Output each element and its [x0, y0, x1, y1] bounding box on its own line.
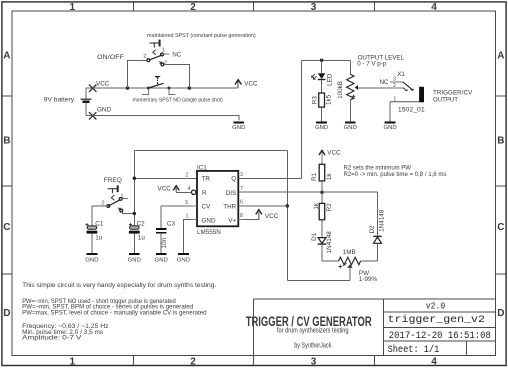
svg-text:1N4148: 1N4148	[326, 231, 333, 254]
ground symbol RV1	[344, 122, 357, 131]
svg-text:4: 4	[431, 356, 437, 367]
IC1 pin names	[202, 176, 237, 225]
svg-text:FREQ: FREQ	[104, 177, 122, 184]
svg-text:VCC: VCC	[158, 186, 172, 193]
svg-text:2: 2	[190, 2, 196, 13]
svg-text:4: 4	[188, 186, 191, 192]
svg-text:VCC: VCC	[327, 149, 341, 156]
wire Q output	[238, 177, 301, 179]
svg-text:PW=max, SPST, level of choice: PW=max, SPST, level of choice - manually…	[22, 311, 206, 317]
wire SW3 pin2 to C1	[92, 206, 107, 225]
wire SW1 pin2 to VCC rail	[128, 60, 148, 88]
svg-text:1: 1	[186, 213, 189, 219]
junction THR node	[286, 204, 290, 208]
svg-text:A: A	[497, 50, 504, 61]
svg-text:5: 5	[185, 200, 188, 206]
wire DIS to D2	[377, 192, 379, 236]
wire TR-THR tie top	[134, 149, 287, 151]
wire Q output to LED/pot	[302, 59, 351, 61]
SW1 second throw contact	[159, 60, 167, 66]
power symbol VCC (R pin)	[158, 186, 180, 193]
svg-text:This simple circuit is very ha: This simple circuit is very handy especi…	[22, 283, 216, 289]
svg-text:1u: 1u	[95, 235, 103, 242]
diode D1 1N4148	[311, 231, 333, 261]
svg-text:IC1: IC1	[197, 164, 207, 171]
svg-text:Amplitude: 0-7 V: Amplitude: 0-7 V	[22, 336, 81, 342]
svg-text:100kB: 100kB	[337, 81, 344, 99]
svg-text:GND: GND	[177, 257, 190, 263]
svg-text:3: 3	[240, 172, 243, 178]
svg-text:1: 1	[70, 356, 76, 367]
power symbol VCC (rail end)	[235, 80, 258, 88]
wire GND rail	[93, 116, 239, 121]
ground symbol C1	[85, 254, 98, 263]
wire TR-THR tie vertical	[286, 150, 288, 280]
IC1 pin 4 R inversion bubble	[192, 190, 196, 194]
svg-text:D1: D1	[311, 232, 318, 241]
junction DIS / R1-R2	[320, 190, 324, 194]
svg-text:1k: 1k	[313, 202, 320, 210]
svg-text:C: C	[3, 222, 10, 233]
svg-text:1u: 1u	[138, 234, 146, 241]
svg-text:Sheet: 1/1: Sheet: 1/1	[388, 344, 440, 356]
wire X1 pin1 to ground	[389, 102, 391, 122]
svg-text:R2=0 -> min. pulse time = 0,8: R2=0 -> min. pulse time = 0,8 / 1,6 ms	[344, 171, 447, 178]
svg-text:1MB: 1MB	[343, 249, 356, 256]
IC1 pin 5 CV stub	[191, 205, 197, 207]
label TRIGGER/CV OUTPUT	[433, 90, 473, 104]
wire GND pin down	[183, 220, 190, 254]
svg-text:TR: TR	[202, 176, 211, 183]
svg-text:CV: CV	[202, 203, 212, 210]
connector X1 jack 1502_01	[380, 71, 426, 113]
svg-text:1: 1	[70, 2, 76, 13]
capacitor C2 1u	[129, 220, 146, 254]
wire V+ pin to VCC	[245, 219, 259, 221]
svg-text:8: 8	[240, 213, 243, 219]
svg-text:GND: GND	[232, 125, 245, 131]
ground symbol R3	[315, 122, 328, 131]
junction SW3/C2 node	[133, 212, 137, 216]
svg-text:momentary SPST NO (single puls: momentary SPST NO (single pulse shot)	[133, 97, 223, 103]
svg-text:2: 2	[164, 60, 167, 66]
svg-text:2017-12-20 16:51:08: 2017-12-20 16:51:08	[389, 331, 491, 342]
svg-text:6: 6	[240, 200, 243, 206]
battery BT1 9V	[81, 88, 93, 116]
IC1 pin 8 V+ stub	[238, 219, 245, 221]
svg-text:GND: GND	[128, 257, 141, 263]
wire SW1 throw to VCC rail	[164, 65, 190, 88]
svg-text:GND: GND	[315, 125, 328, 131]
svg-text:VCC: VCC	[265, 213, 279, 220]
switch SW1 maintained SPST ON/OFF	[97, 33, 256, 62]
svg-text:trigger_gen_v2: trigger_gen_v2	[388, 314, 485, 326]
wire VCC rail	[93, 87, 239, 89]
switch SW2 momentary SPST NO	[133, 77, 223, 104]
resistor R2 1k	[313, 202, 333, 237]
svg-text:A: A	[3, 50, 10, 61]
junction TR node	[133, 177, 137, 181]
svg-text:3: 3	[311, 2, 317, 13]
power symbol VCC (V+ pin)	[256, 210, 279, 220]
wire timing node vertical (TR/C2)	[133, 150, 135, 226]
svg-text:2: 2	[143, 54, 146, 60]
diode D2 1N4148	[369, 209, 385, 261]
resistor R1 1k	[311, 149, 341, 203]
wire CV pin to C3	[161, 205, 191, 207]
ground symbol (right of rails)	[232, 122, 245, 131]
svg-text:B: B	[497, 136, 504, 147]
wire R pin to VCC	[176, 191, 191, 193]
svg-text:NC: NC	[380, 79, 390, 86]
svg-text:1N4148: 1N4148	[378, 209, 385, 232]
LED D3	[312, 60, 334, 93]
svg-text:Q: Q	[231, 176, 236, 183]
potentiometer RV2 1MB PW	[322, 249, 378, 283]
svg-text:C3: C3	[167, 220, 176, 227]
ground symbol X1	[384, 122, 397, 131]
capacitor C1 1u	[86, 220, 104, 254]
svg-text:4: 4	[431, 2, 437, 13]
svg-text:GND: GND	[97, 107, 111, 114]
svg-text:D: D	[3, 308, 10, 319]
ground symbol IC1	[177, 254, 190, 263]
wire DIS pin	[238, 191, 377, 193]
ground symbol C3	[155, 254, 168, 263]
svg-text:10n: 10n	[161, 237, 168, 248]
svg-text:ON/OFF: ON/OFF	[97, 54, 124, 61]
svg-text:B: B	[3, 136, 10, 147]
svg-text:LM555N: LM555N	[197, 229, 221, 236]
SW3 second throw contact	[118, 208, 122, 212]
svg-text:GND: GND	[85, 257, 98, 263]
svg-text:1502_01: 1502_01	[398, 106, 425, 113]
svg-text:X1: X1	[397, 71, 405, 78]
svg-text:R2: R2	[326, 203, 333, 212]
no-connect flag on GND node	[89, 112, 96, 119]
op-amp/timer IC1 LM555N body	[197, 164, 238, 236]
capacitor C3 10n	[156, 206, 176, 254]
svg-text:VCC: VCC	[96, 81, 110, 88]
svg-text:v2.0: v2.0	[426, 302, 446, 312]
wire TR to IC pin 2	[134, 177, 197, 179]
svg-text:2: 2	[190, 356, 196, 367]
svg-text:1-99%: 1-99%	[359, 276, 378, 283]
svg-text:2: 2	[185, 173, 188, 179]
junction VCC rail / SW1 throw	[188, 86, 192, 90]
svg-text:7: 7	[240, 186, 243, 192]
svg-text:THR: THR	[223, 203, 236, 210]
svg-text:C: C	[497, 222, 504, 233]
svg-text:DIS: DIS	[226, 190, 237, 197]
junction LED branch	[320, 59, 324, 63]
IC1 pin 1 GND stub	[191, 219, 197, 221]
svg-text:R3: R3	[311, 96, 318, 105]
svg-text:GND: GND	[384, 125, 397, 131]
wire Q output vertical	[301, 60, 303, 178]
svg-text:1k5: 1k5	[326, 94, 333, 105]
svg-text:OUTPUT: OUTPUT	[433, 97, 458, 104]
svg-text:LED: LED	[327, 73, 334, 86]
svg-text:V+: V+	[228, 217, 236, 224]
switch SW3 FREQ select	[102, 177, 128, 208]
svg-text:D: D	[497, 308, 504, 319]
svg-text:0 - 7 V p-p: 0 - 7 V p-p	[357, 60, 386, 67]
potentiometer RV1 100kB output level	[337, 60, 358, 122]
svg-text:by SyntherJack: by SyntherJack	[294, 341, 331, 350]
svg-text:GND: GND	[155, 257, 168, 263]
svg-text:R1: R1	[311, 172, 318, 181]
svg-text:1k: 1k	[326, 173, 333, 181]
svg-text:3: 3	[311, 356, 317, 367]
svg-text:maintained SPST (constant puls: maintained SPST (constant pulse generati…	[147, 33, 256, 39]
junction VCC rail / SW1 common	[126, 86, 130, 90]
wire THR pin	[238, 205, 287, 207]
svg-text:for drum synthesizers testing: for drum synthesizers testing	[277, 325, 349, 334]
svg-text:GND: GND	[202, 217, 216, 224]
wire RV1 wiper to X1 pin2	[358, 87, 390, 89]
wire THR node to pot wiper	[287, 279, 350, 281]
svg-text:R: R	[202, 190, 207, 197]
svg-text:D2: D2	[369, 225, 376, 234]
ground symbol C2	[128, 254, 141, 263]
svg-text:VCC: VCC	[244, 81, 258, 88]
wire SW3 throw to C2 node	[123, 212, 135, 214]
svg-text:NC: NC	[172, 51, 182, 58]
resistor R3 1k5	[311, 93, 332, 122]
svg-text:GND: GND	[344, 125, 357, 131]
no-connect flag on VCC node	[89, 85, 96, 92]
svg-text:9V battery: 9V battery	[44, 97, 75, 104]
